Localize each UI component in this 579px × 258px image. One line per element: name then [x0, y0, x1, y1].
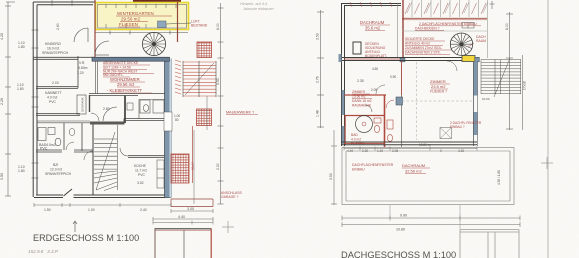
wall kitchen top	[124, 119, 165, 125]
kueche label	[134, 164, 147, 177]
svg-text:11.7 m2: 11.7 m2	[135, 169, 147, 173]
wc fixture	[69, 128, 75, 135]
wintergarten bottom glazing line	[95, 31, 188, 35]
svg-text:DACHFENSTER 2 STK.: DACHFENSTER 2 STK.	[405, 51, 441, 55]
right dim line	[506, 12, 513, 130]
hall walls	[89, 94, 165, 96]
lower dachraum notes	[352, 163, 394, 172]
top wall	[342, 4, 402, 6]
zimmer 15 note	[352, 90, 372, 108]
sheet fold line right	[547, 0, 549, 258]
svg-text:2.35: 2.35	[357, 79, 364, 83]
svg-text:152.9.8 3.3.P: 152.9.8 3.3.P	[28, 249, 59, 254]
svg-text:10.80 m: 10.80 m	[419, 143, 431, 147]
top wall ticks	[6, 0, 72, 6]
yellow box right wall top	[462, 56, 475, 62]
svg-text:2.60: 2.60	[56, 23, 60, 30]
svg-text:GARAGE ?: GARAGE ?	[221, 195, 238, 199]
svg-text:Hinweis auf 4.4: Hinweis auf 4.4	[240, 2, 267, 6]
spiral stair left plan	[142, 32, 165, 55]
door arc top left room	[74, 28, 88, 42]
svg-text:3.53: 3.53	[216, 78, 220, 85]
wall between upper room and main rooms	[342, 58, 463, 61]
rooms bottom wall	[342, 142, 478, 145]
svg-text:V.R.: V.R.	[79, 61, 85, 65]
hall door arc	[376, 85, 385, 94]
svg-text:DACHFLÄCHENFENSTER: DACHFLÄCHENFENSTER	[352, 163, 394, 167]
door arc at top wall	[447, 61, 457, 71]
round tub	[356, 116, 373, 133]
svg-text:DANN 18 m2: DANN 18 m2	[352, 99, 372, 103]
svg-text:SPANNTEPPICH: SPANNTEPPICH	[42, 51, 69, 55]
top wall of kinderzimmer	[33, 2, 95, 5]
svg-text:ISOLIERTE DECKE: ISOLIERTE DECKE	[405, 37, 435, 41]
closet with X	[440, 128, 452, 139]
lower dachraum outline	[342, 148, 514, 205]
svg-text:4.40: 4.40	[178, 215, 185, 219]
blue shower box	[396, 97, 403, 105]
svg-text:Jalousie einbauen: Jalousie einbauen	[242, 7, 274, 11]
red tick column left of stair	[175, 60, 181, 94]
svg-text:FLIESEN: FLIESEN	[351, 142, 365, 146]
wintergarten right red wall	[177, 2, 179, 42]
svg-text:MAUERWERK ?: MAUERWERK ?	[226, 111, 254, 115]
svg-text:15.56 m2: 15.56 m2	[352, 95, 366, 99]
kitchen door arc	[84, 151, 93, 160]
corridor wall vertical	[77, 56, 79, 88]
wc partition	[139, 100, 165, 119]
wardrobe rect with rotated label	[77, 95, 86, 114]
svg-text:1.80: 1.80	[17, 87, 24, 91]
svg-text:BZI: BZI	[53, 163, 58, 167]
bottom small building walls	[171, 199, 213, 207]
leader line from blue box	[166, 23, 191, 24]
svg-text:1.00: 1.00	[88, 208, 95, 212]
svg-text:ANTEILIG 40 m2: ANTEILIG 40 m2	[405, 42, 430, 46]
svg-text:4.50 / 1.80: 4.50 / 1.80	[497, 170, 501, 185]
kinderzi bottom wall	[33, 57, 95, 59]
svg-text:3.00: 3.00	[187, 207, 194, 211]
svg-text:16.0 m2: 16.0 m2	[47, 47, 59, 51]
svg-text:8.00: 8.00	[505, 23, 509, 30]
wintergarten inner black outline	[98, 5, 187, 29]
ext stair diagonal	[185, 63, 214, 95]
svg-text:RAUM: RAUM	[476, 39, 486, 43]
wall junction blue block	[400, 58, 405, 62]
svg-text:4.20: 4.20	[0, 33, 4, 40]
bzi label	[45, 163, 72, 176]
svg-text:2.76: 2.76	[316, 76, 320, 83]
wintergarten label	[117, 11, 154, 27]
svg-text:2.03: 2.03	[52, 81, 59, 85]
svg-text:±0.00: ±0.00	[482, 97, 490, 101]
bottom dims of annex	[153, 209, 213, 221]
svg-text:3.53: 3.53	[329, 173, 333, 180]
svg-text:4.60m: 4.60m	[78, 66, 88, 70]
secondary left dim	[331, 130, 337, 205]
svg-text:10.80: 10.80	[396, 228, 405, 232]
svg-text:3.53: 3.53	[316, 33, 320, 40]
wintergarten yellow area	[96, 3, 189, 28]
svg-text:ERDGESCHOSS M 1:100: ERDGESCHOSS M 1:100	[33, 233, 139, 243]
lower exterior hatched pad	[171, 154, 189, 183]
svg-text:12.0 m2: 12.0 m2	[50, 168, 62, 172]
wc small rects near kitchen top	[140, 100, 164, 113]
svg-text:9.90: 9.90	[400, 214, 407, 218]
kitchen top wall	[128, 156, 165, 158]
window ticks on left wall	[32, 30, 39, 178]
interior wall vertical hall/bzi	[92, 122, 94, 195]
svg-text:KÜCHE: KÜCHE	[134, 164, 147, 168]
kabinett label	[45, 91, 62, 104]
svg-text:1.80: 1.80	[18, 45, 25, 49]
svg-text:DACHGESCHOSS M 1:100: DACHGESCHOSS M 1:100	[341, 250, 456, 258]
stair diagonal	[96, 132, 115, 190]
red note block mid	[405, 37, 442, 55]
dim vertical near pad	[194, 96, 207, 204]
svg-text:2.30: 2.30	[216, 163, 220, 170]
svg-text:2.40: 2.40	[140, 208, 147, 212]
bad label	[351, 133, 365, 146]
door arcs red	[386, 100, 394, 108]
svg-text:8.00: 8.00	[216, 23, 220, 30]
zimmer 23 note	[430, 79, 446, 89]
exterior stair treads red	[183, 62, 216, 96]
svg-text:SPANNTEPPICH: SPANNTEPPICH	[45, 172, 72, 176]
bad label	[39, 143, 56, 151]
spiral stair right plan	[450, 33, 472, 55]
svg-text:KINDERZI: KINDERZI	[45, 42, 61, 46]
window gap in right wall	[164, 112, 172, 131]
dim row under rooms	[347, 143, 464, 153]
corridor wall above bad	[37, 121, 90, 123]
svg-text:FLIESEN: FLIESEN	[119, 22, 138, 27]
svg-text:SCHRANK: SCHRANK	[81, 97, 85, 112]
wohnzimmer top wall blue-grey	[92, 57, 170, 61]
wall kabinett bottom	[36, 114, 80, 116]
vertical connectors to garage dims	[390, 205, 460, 229]
svg-text:DACHBODEN ?: DACHBODEN ?	[415, 26, 440, 30]
bottom dim line of plan	[34, 203, 171, 207]
svg-text:1.48: 1.48	[316, 110, 320, 117]
left dim line of right plan	[317, 10, 324, 128]
svg-text:EINBAU ?: EINBAU ?	[450, 125, 465, 129]
svg-text:4.0 m2: 4.0 m2	[351, 138, 361, 142]
wall bad bottom / bzi top	[36, 150, 93, 152]
decken isolierung note	[365, 42, 387, 58]
left dimension line	[5, 2, 11, 196]
bottom outer wall	[34, 189, 171, 198]
small arrow under plan	[73, 221, 77, 232]
small blue box in wintergarten	[158, 21, 167, 28]
kinderzimmer label	[42, 42, 69, 55]
legend box	[462, 23, 474, 29]
blue fill segments left wall	[342, 90, 345, 115]
right dim line of left plan	[218, 3, 224, 204]
red note bottom-left of stair	[450, 121, 482, 129]
svg-text:29.56 m2: 29.56 m2	[121, 17, 141, 22]
svg-text:1.50: 1.50	[44, 208, 51, 212]
right blue wall	[474, 62, 478, 96]
svg-text:BAD: BAD	[351, 133, 358, 137]
svg-text:2.80: 2.80	[103, 107, 110, 111]
bad fixtures	[38, 128, 61, 146]
outer left wall	[33, 2, 37, 197]
svg-text:WINTERGARTEN: WINTERGARTEN	[117, 11, 154, 16]
svg-text:PVC: PVC	[49, 100, 57, 104]
svg-text:2.26: 2.26	[0, 98, 4, 105]
svg-text:4.60: 4.60	[372, 67, 378, 71]
svg-text:EINBAU: EINBAU	[352, 168, 365, 172]
cross right	[541, 157, 553, 169]
V.R. room label	[77, 61, 88, 75]
svg-text:35.6 m2: 35.6 m2	[365, 26, 381, 31]
skylight glazing strip	[398, 0, 489, 58]
dark red strip above wintergarten	[133, 0, 181, 3]
svg-text:RAUMHÖHE: RAUMHÖHE	[352, 104, 372, 108]
wc partition walls	[63, 123, 65, 150]
svg-text:2 DACHFLÄCHENFENSTER EINBAU: 2 DACHFLÄCHENFENSTER EINBAU	[419, 22, 477, 26]
svg-text:23.5 m2: 23.5 m2	[431, 84, 446, 89]
eave red band	[402, 17, 487, 19]
svg-text:3.52: 3.52	[137, 181, 144, 185]
house right wall blue	[165, 59, 170, 198]
bottom dim line of right plan	[342, 216, 520, 221]
wohnzimmer red annotation block	[103, 61, 139, 77]
svg-text:80: 80	[175, 118, 179, 122]
svg-text:4.0 m2: 4.0 m2	[47, 96, 57, 100]
top wall red ticks	[350, 2, 392, 7]
svg-text:- KLEBEPARKETT: - KLEBEPARKETT	[107, 88, 143, 93]
top-right staircase	[481, 55, 523, 130]
svg-text:DACHRAUM: DACHRAUM	[360, 20, 385, 25]
svg-text:29.56 m2: 29.56 m2	[117, 82, 135, 87]
svg-text:32.56 m2: 32.56 m2	[405, 169, 422, 174]
exterior stair: upper hatched pier	[197, 42, 212, 126]
outer left wall	[342, 3, 345, 146]
svg-text:4.0m2: 4.0m2	[46, 143, 56, 147]
svg-text:PVC: PVC	[138, 173, 146, 177]
garage right	[460, 230, 519, 258]
interior: red walls	[345, 94, 387, 96]
up arrow mark	[490, 1, 495, 9]
door arcs hall	[103, 107, 117, 121]
garage left	[153, 221, 213, 258]
svg-text:3.50: 3.50	[0, 173, 4, 180]
svg-text:17x18: 17x18	[523, 81, 527, 90]
svg-text:DACHRAUM: DACHRAUM	[402, 163, 425, 168]
dashed roof line inside room	[402, 62, 473, 140]
wc fixtures red	[374, 118, 393, 141]
stair winders fan	[94, 171, 117, 191]
vorraum/wohnzimmer divider wall	[95, 61, 97, 94]
svg-text:ZIMMER: ZIMMER	[352, 90, 366, 94]
svg-text:0.90: 0.90	[390, 75, 396, 79]
left dim labels	[0, 33, 25, 180]
stairwell top wall	[90, 122, 124, 125]
door arc wintergarten to kinderzimmer	[95, 41, 109, 55]
wall kinderzi / kabinett	[36, 87, 78, 89]
bath left wall red overlay	[344, 116, 346, 145]
wintergarten left red wall	[94, 0, 96, 57]
svg-text:BESTAND: BESTAND	[191, 24, 208, 28]
kitchen counter	[157, 160, 164, 188]
interior stair treads	[94, 125, 118, 190]
svg-text:KABINETT: KABINETT	[45, 91, 62, 95]
svg-text:1.80: 1.80	[18, 169, 25, 173]
cross mark	[222, 221, 234, 233]
svg-text:FLIESEN ?: FLIESEN ?	[430, 90, 447, 94]
chimney rect	[353, 42, 361, 54]
svg-text:ZUSAMMEN 27m2 ISOL.: ZUSAMMEN 27m2 ISOL.	[405, 46, 442, 50]
